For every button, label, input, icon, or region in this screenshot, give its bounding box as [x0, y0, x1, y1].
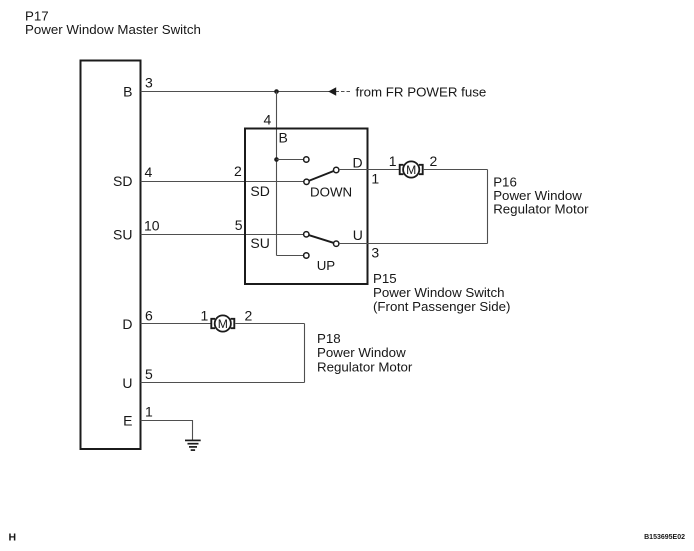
- svg-text:5: 5: [145, 366, 153, 382]
- svg-text:2: 2: [245, 307, 253, 323]
- wire B vertical into P15: [276, 92, 278, 256]
- wire B (pin 3 to fuse arrow / P15): [141, 91, 336, 93]
- svg-text:B: B: [279, 129, 288, 145]
- contact DOWN common (SD): [304, 179, 309, 184]
- svg-text:P18: P18: [317, 331, 341, 346]
- wire right vertical of P16 loop: [487, 170, 489, 244]
- motor P16 symbol: [400, 161, 423, 177]
- svg-text:UP: UP: [317, 258, 336, 273]
- node junction on wire B: [274, 89, 279, 94]
- wire E (pin 1 to ground): [141, 421, 193, 441]
- svg-text:Regulator Motor: Regulator Motor: [493, 201, 589, 216]
- svg-text:DOWN: DOWN: [310, 185, 352, 200]
- wire U return (to pin 5): [141, 382, 305, 384]
- wire U return to P15 pin 3: [339, 243, 488, 245]
- wire B branch to DOWN idle contact: [277, 159, 304, 161]
- switch P15 box: [245, 129, 368, 285]
- wire right vertical of P18 loop: [304, 324, 306, 383]
- svg-text:SD: SD: [113, 173, 132, 189]
- svg-text:Regulator Motor: Regulator Motor: [317, 360, 413, 375]
- contact DOWN output (D): [334, 167, 339, 172]
- svg-text:D: D: [122, 316, 132, 332]
- svg-text:from FR POWER fuse: from FR POWER fuse: [356, 84, 487, 99]
- wire motor P16 to right corner: [424, 169, 488, 171]
- svg-text:SU: SU: [250, 235, 269, 251]
- contact UP idle (B side): [304, 253, 309, 258]
- motor P18 symbol: [211, 315, 234, 331]
- svg-text:4: 4: [145, 164, 153, 180]
- svg-text:M: M: [218, 317, 228, 331]
- svg-text:1: 1: [389, 153, 397, 169]
- svg-text:4: 4: [264, 112, 272, 128]
- svg-text:1: 1: [371, 171, 379, 187]
- wire D from P15 pin 1 to motor P16: [339, 169, 399, 171]
- wire SU (pin 10 to P15 pin 5): [141, 234, 304, 236]
- arrow from FR POWER fuse: [328, 87, 336, 96]
- svg-text:Power Window Master Switch: Power Window Master Switch: [25, 22, 201, 37]
- svg-text:10: 10: [144, 217, 160, 233]
- svg-text:B: B: [123, 84, 132, 100]
- svg-text:1: 1: [145, 403, 153, 419]
- switch DOWN lever: [307, 170, 337, 182]
- contact DOWN idle (B side): [304, 157, 309, 162]
- svg-text:U: U: [353, 227, 363, 243]
- svg-text:Power Window Switch: Power Window Switch: [373, 285, 505, 300]
- svg-text:SU: SU: [113, 227, 132, 243]
- contact UP output (U): [334, 241, 339, 246]
- wire dashed tail to fuse text: [336, 91, 352, 93]
- svg-text:3: 3: [145, 75, 153, 91]
- svg-text:D: D: [353, 155, 363, 171]
- contact UP common (SU): [304, 232, 309, 237]
- svg-text:E: E: [123, 413, 132, 429]
- connector P17 box (Power Window Master Switch): [81, 61, 141, 450]
- svg-text:P15: P15: [373, 271, 397, 286]
- svg-text:3: 3: [371, 245, 379, 261]
- svg-text:SD: SD: [250, 183, 269, 199]
- ground: [185, 440, 201, 450]
- node junction on B line at DOWN branch: [274, 157, 279, 162]
- svg-text:1: 1: [201, 307, 209, 323]
- svg-text:U: U: [122, 375, 132, 391]
- wire motor P18 to right corner: [235, 323, 304, 325]
- svg-text:Power Window: Power Window: [317, 345, 406, 360]
- svg-text:H: H: [9, 532, 17, 544]
- switch UP lever: [306, 234, 336, 243]
- wire SD (pin 4 to P15 pin 2): [141, 181, 304, 183]
- svg-text:6: 6: [145, 307, 153, 323]
- svg-text:2: 2: [234, 163, 242, 179]
- svg-text:B153695E02: B153695E02: [644, 534, 685, 541]
- svg-text:(Front Passenger Side): (Front Passenger Side): [373, 299, 510, 314]
- svg-text:2: 2: [430, 153, 438, 169]
- svg-text:M: M: [406, 163, 416, 177]
- wire B branch to UP idle contact: [277, 255, 304, 257]
- svg-text:5: 5: [235, 217, 243, 233]
- wire D (pin 6 to motor P18): [141, 323, 211, 325]
